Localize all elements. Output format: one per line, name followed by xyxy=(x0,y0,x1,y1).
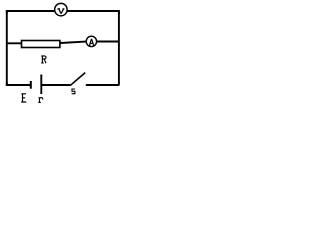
wire left vertical xyxy=(6,11,8,86)
wire left stub to resistor xyxy=(6,42,22,44)
wire battery to switch xyxy=(42,84,70,86)
switch blade xyxy=(70,73,85,86)
wire top-left (corner to voltmeter) xyxy=(7,11,55,14)
label r xyxy=(38,97,42,102)
ammeter A xyxy=(86,36,96,46)
wire bottom-left (corner to battery) xyxy=(7,82,31,85)
wire resistor to ammeter xyxy=(60,42,85,43)
label E xyxy=(21,94,26,102)
wire top-right (voltmeter to corner) xyxy=(68,11,119,14)
resistor R xyxy=(22,41,60,48)
wire ammeter to right vertical xyxy=(97,41,118,43)
voltmeter V xyxy=(55,3,68,16)
wire right vertical xyxy=(118,11,120,86)
wire switch to bottom-right corner xyxy=(86,84,119,86)
label s xyxy=(72,89,76,94)
battery long plate xyxy=(40,75,42,95)
battery short plate xyxy=(30,81,32,89)
label R xyxy=(41,56,46,63)
